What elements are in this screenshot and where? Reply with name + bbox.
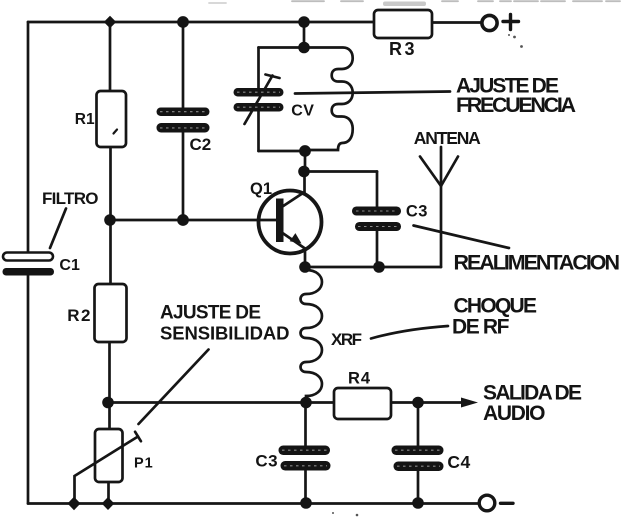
svg-text:SENSIBILIDAD: SENSIBILIDAD <box>160 323 290 344</box>
svg-text:R2: R2 <box>67 306 92 325</box>
svg-text:Q1: Q1 <box>250 180 272 198</box>
svg-text:FILTRO: FILTRO <box>42 189 99 208</box>
svg-text:R4: R4 <box>348 370 371 388</box>
svg-text:AJUSTE DE: AJUSTE DE <box>160 303 261 324</box>
svg-text:XRF: XRF <box>331 330 362 349</box>
svg-text:FRECUENCIA: FRECUENCIA <box>456 93 576 117</box>
svg-text:R3: R3 <box>389 39 417 59</box>
svg-text:AUDIO: AUDIO <box>483 402 546 425</box>
svg-text:DE RF: DE RF <box>452 316 510 339</box>
svg-text:R1: R1 <box>75 111 95 128</box>
svg-text:CV: CV <box>291 103 314 120</box>
svg-text:C3: C3 <box>255 452 278 471</box>
svg-text:CHOQUE: CHOQUE <box>454 295 538 318</box>
svg-text:C4: C4 <box>447 452 470 472</box>
svg-text:ANTENA: ANTENA <box>414 128 481 148</box>
svg-text:P1: P1 <box>134 456 154 472</box>
svg-text:REALIMENTACION: REALIMENTACION <box>454 251 621 275</box>
svg-text:C3: C3 <box>406 203 428 221</box>
svg-text:C2: C2 <box>190 135 212 154</box>
svg-text:C1: C1 <box>59 257 80 274</box>
